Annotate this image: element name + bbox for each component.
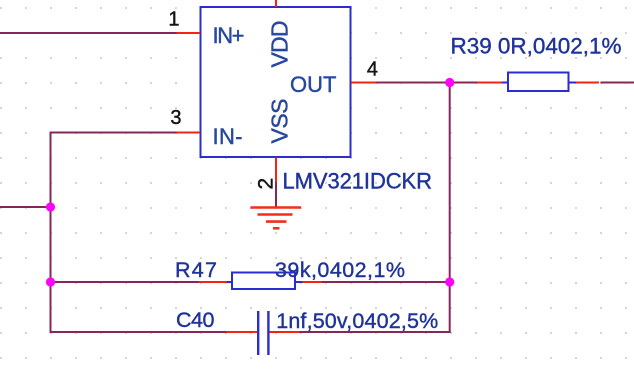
resistor R47 body xyxy=(232,273,295,290)
svg-text:VSS: VSS xyxy=(266,99,292,144)
wire net IN- horizontal to pin 3 xyxy=(51,132,177,134)
wire R39 right horizontal xyxy=(601,82,634,84)
junction node right R47 xyxy=(445,277,454,286)
svg-text:IN-: IN- xyxy=(213,124,243,149)
pin 1 stub IN+ xyxy=(177,32,201,34)
wire ground segment vertical xyxy=(275,181,277,207)
svg-text:VDD: VDD xyxy=(267,21,293,68)
pin 3 stub IN- xyxy=(177,132,201,134)
svg-text:R47: R47 xyxy=(175,258,217,282)
wire left input horizontal xyxy=(0,206,51,208)
resistor R39 body xyxy=(508,73,569,92)
wire OUT horizontal xyxy=(376,82,450,84)
svg-text:C40: C40 xyxy=(176,308,215,332)
pin 4 stub OUT xyxy=(351,82,376,84)
wire OUT vertical right bus xyxy=(449,83,451,334)
junction node OUT xyxy=(445,78,454,87)
resistor R47 stubs xyxy=(199,281,322,283)
wire C40 right horizontal xyxy=(300,331,451,333)
resistor R47 leads xyxy=(227,281,303,283)
wire R39 left horizontal xyxy=(450,82,478,84)
svg-text:LMV321IDCKR: LMV321IDCKR xyxy=(283,169,433,194)
svg-text:R39 0R,0402,1%: R39 0R,0402,1% xyxy=(451,34,622,59)
ground symbol xyxy=(251,208,302,229)
svg-text:2: 2 xyxy=(255,178,278,190)
wire net IN+ horizontal xyxy=(0,32,177,34)
resistor R39 leads xyxy=(502,82,576,84)
wire C40 left horizontal xyxy=(50,331,227,333)
junction node left input xyxy=(46,202,55,211)
svg-text:IN+: IN+ xyxy=(213,23,245,48)
pin 5 stub VDD top xyxy=(275,0,277,7)
wire net IN- vertical left bus xyxy=(50,132,52,334)
op-amp U? LMV321IDCKR body xyxy=(201,7,351,157)
svg-text:3: 3 xyxy=(170,107,181,129)
resistor R39 stubs xyxy=(477,82,599,84)
svg-text:1nf,50v,0402,5%: 1nf,50v,0402,5% xyxy=(276,309,438,333)
capacitor C40 stubs xyxy=(226,331,300,333)
svg-text:39k,0402,1%: 39k,0402,1% xyxy=(275,258,405,282)
svg-text:1: 1 xyxy=(168,9,179,31)
pin 2 stub VSS bottom xyxy=(275,158,277,183)
svg-text:4: 4 xyxy=(367,59,378,81)
junction node left R47 xyxy=(46,277,55,286)
svg-text:OUT: OUT xyxy=(290,72,336,97)
wire R47 left horizontal xyxy=(51,281,200,283)
wire R47 right horizontal xyxy=(322,281,450,283)
capacitor C40 plates xyxy=(258,311,268,355)
